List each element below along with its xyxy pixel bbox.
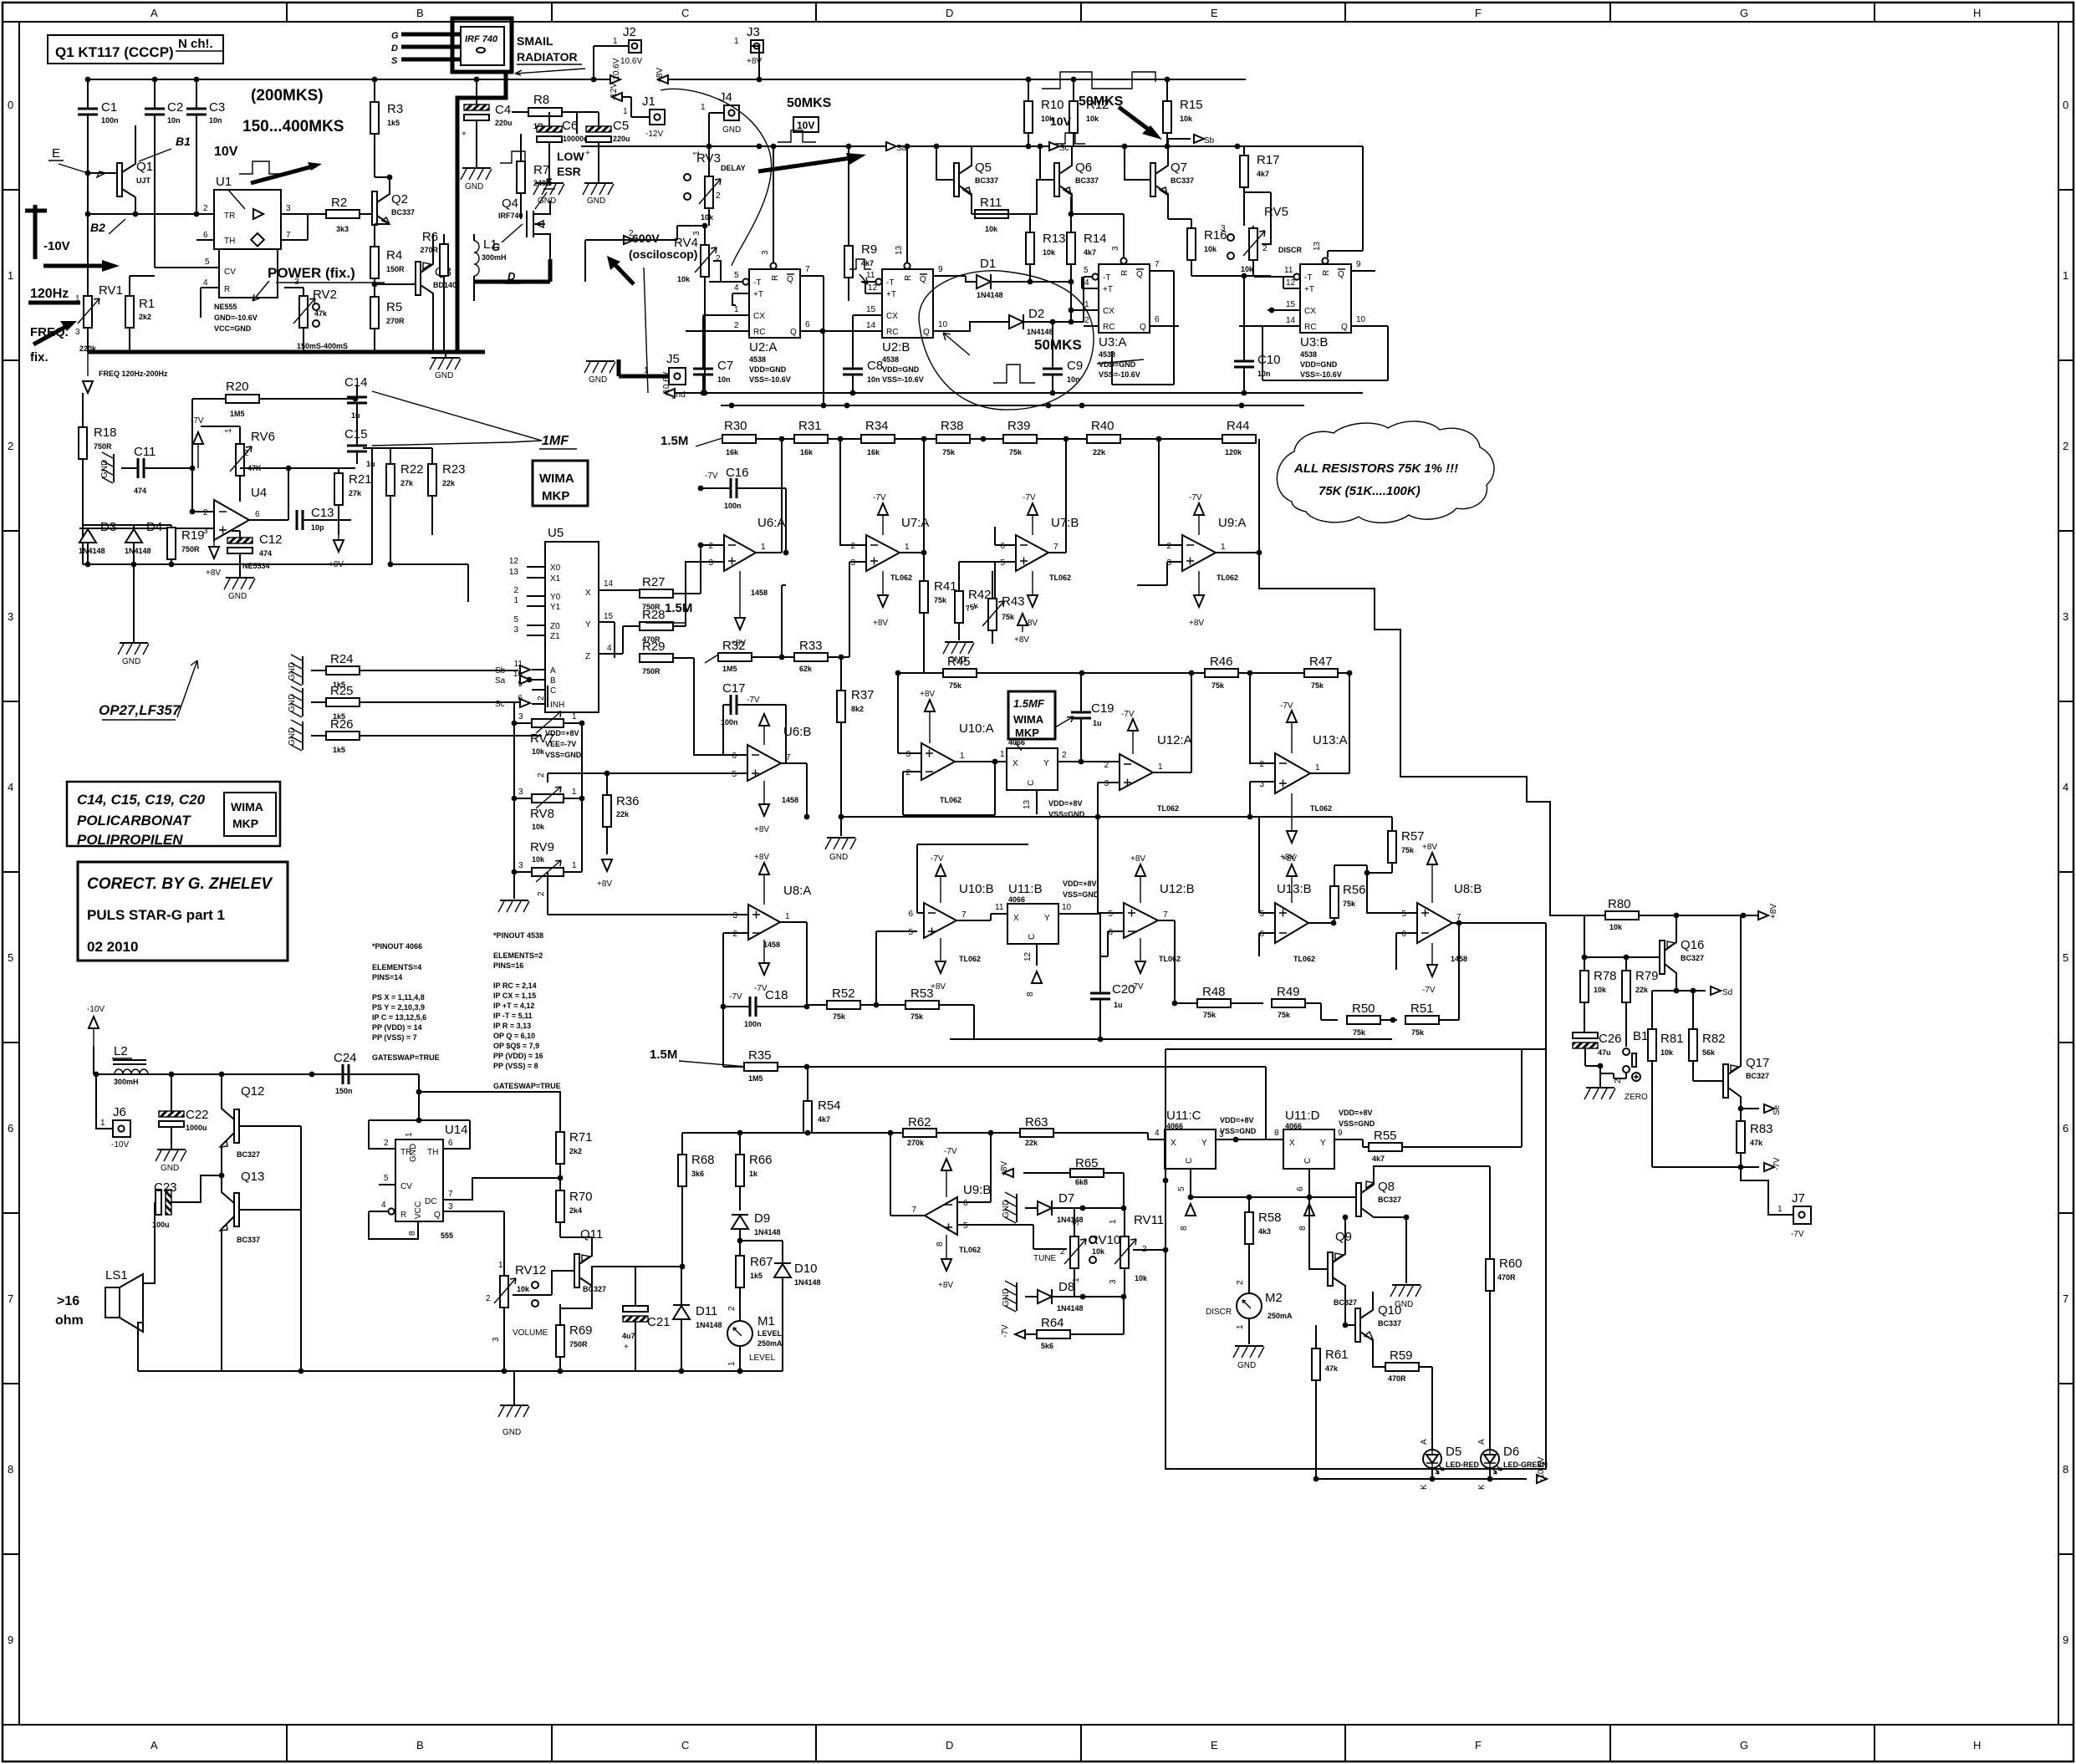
svg-text:R: R [1322, 270, 1331, 276]
svg-text:R40: R40 [1091, 419, 1115, 433]
svg-text:2: 2 [629, 229, 634, 238]
svg-text:F: F [1475, 1739, 1482, 1751]
svg-text:474: 474 [259, 549, 272, 558]
svg-text:50MKS: 50MKS [787, 96, 832, 110]
svg-text:4u7: 4u7 [622, 1332, 635, 1340]
svg-text:2: 2 [244, 449, 249, 458]
svg-text:3: 3 [518, 861, 523, 870]
freehand ellipse [919, 271, 1094, 410]
svg-text:WIMA: WIMA [231, 800, 263, 813]
svg-text:U7:B: U7:B [1051, 516, 1079, 530]
resistor R18 [79, 427, 87, 459]
svg-text:4538: 4538 [749, 355, 766, 364]
svg-text:Y: Y [585, 620, 591, 630]
svg-text:Sd: Sd [1722, 988, 1732, 997]
capacitor C6 [537, 126, 562, 142]
svg-text:1: 1 [100, 1119, 105, 1128]
svg-text:D1: D1 [980, 257, 996, 271]
svg-text:RV12: RV12 [515, 1263, 546, 1277]
svg-text:2: 2 [716, 191, 721, 201]
svg-text:MKP: MKP [542, 489, 569, 503]
svg-text:U14: U14 [445, 1123, 468, 1137]
svg-text:1: 1 [1158, 762, 1163, 772]
Sa tap [886, 142, 896, 150]
svg-text:02 2010: 02 2010 [87, 939, 138, 955]
svg-text:R41: R41 [934, 579, 957, 594]
opamp U6:B [747, 745, 781, 781]
opamp U13:B [1275, 903, 1308, 943]
svg-text:R27: R27 [642, 575, 666, 589]
svg-text:6k8: 6k8 [1075, 1178, 1088, 1186]
svg-text:ESR: ESR [557, 165, 581, 178]
svg-text:J5: J5 [666, 352, 680, 366]
svg-text:3: 3 [732, 911, 737, 920]
svg-text:Sb: Sb [1204, 136, 1215, 145]
resistor R49 [1272, 999, 1305, 1007]
diode D10 [774, 1263, 791, 1277]
svg-text:D: D [391, 43, 398, 54]
svg-text:J7: J7 [1792, 1191, 1805, 1206]
svg-text:4538: 4538 [1099, 350, 1115, 359]
box CORECT BY G ZHELEV [78, 862, 288, 961]
capacitor C8 [843, 369, 863, 375]
diode D2 [1009, 314, 1023, 329]
svg-text:VSS=-10.6V: VSS=-10.6V [1099, 370, 1140, 379]
svg-text:*PINOUT 4066: *PINOUT 4066 [372, 942, 422, 951]
svg-text:R54: R54 [818, 1099, 841, 1113]
svg-text:474: 474 [134, 487, 146, 495]
svg-text:POLIPROPILEN: POLIPROPILEN [77, 832, 183, 848]
resistor R63 [1020, 1129, 1053, 1137]
svg-text:R: R [771, 275, 780, 281]
svg-text:GND: GND [1002, 1288, 1011, 1307]
svg-text:1: 1 [734, 37, 739, 46]
svg-text:8: 8 [936, 1241, 945, 1247]
svg-text:GND=-10.6V: GND=-10.6V [214, 314, 258, 322]
svg-text:R23: R23 [442, 462, 466, 477]
svg-text:B: B [550, 676, 556, 686]
svg-text:OP $Q$ = 7,9: OP $Q$ = 7,9 [493, 1042, 539, 1050]
svg-text:2: 2 [1062, 751, 1067, 760]
transistor Q10 [1355, 1308, 1360, 1342]
svg-text:X: X [1171, 1139, 1176, 1148]
resistor R80 [1605, 911, 1639, 920]
resistor R54 [803, 1101, 812, 1133]
svg-text:150mS-400mS: 150mS-400mS [297, 342, 348, 350]
svg-text:C: C [1185, 1158, 1194, 1164]
resistor R23 [428, 464, 436, 496]
svg-text:R65: R65 [1075, 1156, 1099, 1170]
resistor R25 with gnd [291, 686, 303, 717]
svg-text:R6: R6 [422, 230, 438, 244]
svg-text:1: 1 [734, 305, 739, 314]
transistor Q3 [416, 262, 421, 295]
resistor R70 [556, 1190, 564, 1222]
svg-text:470R: 470R [1388, 1374, 1406, 1383]
svg-text:C9: C9 [1067, 359, 1083, 373]
svg-text:4066: 4066 [1285, 1122, 1302, 1130]
svg-text:U4: U4 [251, 486, 267, 500]
opamp U8:B [1417, 903, 1452, 943]
analog switch U11:D [1283, 1129, 1334, 1169]
svg-text:75k: 75k [934, 596, 947, 604]
svg-text:-7V: -7V [1121, 710, 1135, 719]
svg-text:Y: Y [1043, 759, 1049, 768]
svg-text:N ch!.: N ch!. [178, 37, 213, 51]
svg-text:270R: 270R [386, 317, 405, 325]
opamp U8:A [748, 905, 780, 940]
svg-text:D5: D5 [1446, 1445, 1461, 1459]
IC U5 4053 [545, 542, 599, 712]
svg-text:R51: R51 [1410, 1002, 1434, 1016]
svg-text:DC: DC [425, 1197, 436, 1206]
connector J4 [724, 105, 739, 120]
svg-text:C3: C3 [209, 100, 225, 115]
svg-text:-10V: -10V [87, 1005, 105, 1014]
svg-text:-7V: -7V [729, 992, 742, 1002]
svg-text:U12:B: U12:B [1160, 882, 1195, 896]
diode D8 with gnd [1005, 1281, 1017, 1312]
svg-text:56k: 56k [1702, 1048, 1716, 1057]
svg-text:R46: R46 [1210, 655, 1233, 669]
svg-text:R55: R55 [1374, 1129, 1397, 1143]
svg-text:R: R [224, 285, 230, 294]
svg-text:-7V: -7V [1189, 493, 1202, 502]
potentiometer RV8 [532, 787, 564, 808]
svg-text:+8V: +8V [1769, 904, 1778, 919]
Sc tap [1049, 142, 1059, 150]
svg-text:Z0: Z0 [550, 622, 560, 631]
resistor R13 [1026, 232, 1034, 264]
svg-text:1M5: 1M5 [748, 1074, 763, 1083]
svg-text:R8: R8 [533, 93, 549, 107]
svg-text:C12: C12 [259, 533, 283, 547]
svg-text:R39: R39 [1007, 419, 1031, 433]
resistor R46 [1205, 669, 1238, 677]
svg-text:+: + [624, 1343, 629, 1352]
svg-text:>16: >16 [57, 1294, 79, 1308]
svg-text:GND: GND [122, 657, 140, 666]
resistor R82 [1689, 1029, 1697, 1061]
resistor R68 [678, 1155, 686, 1186]
transistor Q9 [1328, 1252, 1333, 1286]
resistor R12 [1069, 101, 1078, 133]
Sd node [1652, 990, 1706, 992]
svg-text:150...400MKS: 150...400MKS [242, 118, 344, 135]
svg-text:VCC: VCC [414, 1201, 423, 1219]
svg-text:1N4148: 1N4148 [125, 547, 151, 555]
svg-text:C: C [681, 7, 689, 19]
meter M1 [727, 1321, 752, 1346]
resistor R78 [1580, 971, 1589, 1002]
resistor R17 [1240, 155, 1248, 187]
svg-text:0: 0 [2063, 99, 2068, 111]
svg-text:R64: R64 [1041, 1316, 1064, 1330]
svg-text:2: 2 [537, 772, 546, 777]
svg-text:2: 2 [734, 321, 739, 330]
diode D4 [125, 528, 142, 543]
svg-text:J3: J3 [747, 25, 760, 39]
svg-text:INH: INH [550, 701, 564, 710]
resistor R61 [1312, 1348, 1320, 1380]
svg-text:10k: 10k [532, 855, 545, 864]
svg-text:75k: 75k [1343, 900, 1356, 908]
svg-text:6: 6 [732, 752, 737, 761]
svg-text:A: A [1477, 1439, 1487, 1445]
svg-text:75k: 75k [1009, 448, 1023, 456]
svg-text:10: 10 [1356, 315, 1366, 324]
svg-text:K: K [1477, 1484, 1487, 1490]
svg-text:ZERO: ZERO [1625, 1093, 1648, 1102]
svg-text:250mA: 250mA [757, 1339, 783, 1348]
svg-text:5: 5 [384, 1174, 389, 1183]
svg-text:R62: R62 [908, 1115, 931, 1129]
svg-text:3: 3 [75, 328, 80, 337]
svg-text:+8V: +8V [873, 619, 888, 628]
svg-text:13: 13 [895, 245, 904, 255]
svg-text:8k2: 8k2 [851, 705, 864, 713]
svg-text:RV1: RV1 [99, 283, 123, 298]
svg-text:+8V: +8V [1282, 854, 1297, 864]
svg-text:RC: RC [1304, 323, 1316, 332]
svg-text:U13:A: U13:A [1313, 733, 1348, 747]
svg-text:D4: D4 [146, 520, 162, 534]
capacitor C19 [1071, 712, 1091, 718]
svg-text:3: 3 [286, 204, 291, 213]
svg-text:DISCR: DISCR [1206, 1308, 1232, 1317]
svg-text:3: 3 [2063, 610, 2068, 623]
svg-text:5: 5 [205, 257, 210, 267]
svg-text:+8V: +8V [1189, 619, 1204, 628]
svg-text:75k: 75k [910, 1012, 924, 1021]
svg-text:VDD=+8V: VDD=+8V [1063, 879, 1097, 888]
svg-text:TR: TR [224, 212, 235, 221]
svg-text:7: 7 [1155, 260, 1160, 269]
svg-text:X: X [1012, 759, 1018, 768]
capacitor C4 [464, 105, 489, 120]
resistor R26 with gnd [291, 720, 303, 751]
svg-text:A: A [150, 7, 158, 19]
svg-text:120k: 120k [1225, 448, 1242, 456]
U14 wiring [369, 1074, 470, 1149]
thick bus from IRF740 [457, 74, 506, 352]
resistor R47 [1304, 669, 1338, 677]
svg-text:250mA: 250mA [1268, 1312, 1293, 1320]
svg-text:10p: 10p [311, 523, 324, 532]
resistor R2 [326, 210, 360, 218]
+8V rail [1584, 915, 1758, 916]
svg-text:14: 14 [866, 321, 876, 330]
svg-text:1: 1 [572, 788, 577, 797]
capacitor C22 [159, 1111, 184, 1127]
resistor R62 [903, 1129, 936, 1137]
svg-text:C13: C13 [311, 506, 334, 520]
meter M2 [1237, 1293, 1262, 1318]
svg-text:*PINOUT 4538: *PINOUT 4538 [493, 931, 543, 940]
svg-text:R35: R35 [748, 1048, 772, 1063]
svg-text:Q: Q [1341, 323, 1348, 332]
svg-text:R33: R33 [799, 639, 823, 653]
svg-text:5: 5 [1000, 558, 1005, 568]
svg-text:13: 13 [1023, 799, 1032, 809]
svg-text:PULS STAR-G part 1: PULS STAR-G part 1 [87, 907, 225, 923]
capacitor C18 [750, 997, 756, 1017]
svg-text:2: 2 [8, 440, 13, 452]
resistor chain top rail [722, 439, 1252, 443]
svg-text:16k: 16k [800, 448, 814, 456]
resistor R66 [736, 1155, 744, 1186]
svg-text:1: 1 [785, 912, 790, 921]
svg-text:BC337: BC337 [1171, 176, 1194, 185]
svg-text:47u: 47u [1598, 1048, 1611, 1057]
svg-text:10k: 10k [1204, 245, 1217, 253]
svg-text:2: 2 [905, 768, 910, 777]
svg-text:5: 5 [908, 928, 913, 937]
svg-text:1N4148: 1N4148 [79, 547, 105, 555]
resistor R28 [640, 622, 673, 630]
resistor R36 [603, 795, 611, 827]
svg-text:X1: X1 [550, 574, 561, 584]
aux rail [721, 405, 1304, 406]
svg-text:GND: GND [1237, 1361, 1256, 1370]
svg-text:R29: R29 [642, 640, 666, 654]
svg-text:2: 2 [727, 1306, 737, 1311]
transistor Q12 [234, 1109, 239, 1143]
svg-text:5: 5 [963, 1221, 968, 1231]
svg-text:6: 6 [203, 231, 208, 240]
svg-text:U5: U5 [548, 526, 564, 540]
svg-text:RV9: RV9 [530, 840, 554, 854]
svg-text:9: 9 [8, 1634, 13, 1646]
svg-text:1: 1 [761, 543, 766, 552]
svg-text:7: 7 [1163, 910, 1168, 920]
resistor R65 [1070, 1169, 1104, 1177]
transistor Q16 [1660, 941, 1665, 974]
svg-text:6: 6 [1108, 928, 1113, 937]
svg-text:2k2: 2k2 [139, 313, 151, 321]
svg-text:1458: 1458 [751, 589, 768, 597]
svg-text:R44: R44 [1227, 419, 1250, 433]
svg-text:100n: 100n [101, 116, 119, 125]
GND under R42 [943, 642, 974, 654]
transistor Q5 [954, 163, 959, 196]
svg-text:-7V: -7V [705, 472, 718, 481]
svg-text:R63: R63 [1025, 1115, 1048, 1129]
svg-text:0: 0 [8, 99, 13, 111]
svg-text:R20: R20 [226, 380, 249, 394]
svg-text:GND: GND [161, 1164, 179, 1173]
svg-text:75k: 75k [1002, 613, 1015, 621]
svg-text:IP C = 13,12,5,6: IP C = 13,12,5,6 [372, 1013, 426, 1022]
svg-text:B1: B1 [176, 135, 191, 148]
box C14 C15 C19 C20 POLICARBONAT [67, 782, 280, 846]
svg-text:U12:A: U12:A [1157, 733, 1192, 747]
title box Q1 KT117 [48, 35, 223, 64]
svg-text:8: 8 [408, 1231, 417, 1236]
svg-text:75k: 75k [1401, 846, 1415, 854]
inductor L1 [474, 241, 479, 276]
svg-text:BC327: BC327 [1378, 1196, 1401, 1204]
resistor R5 [370, 297, 379, 329]
svg-text:ALL RESISTORS 75K 1% !!!: ALL RESISTORS 75K 1% !!! [1293, 461, 1458, 476]
potentiometer RV11 [1115, 1236, 1136, 1268]
svg-text:3k3: 3k3 [336, 225, 349, 233]
svg-text:1k5: 1k5 [333, 746, 345, 754]
svg-text:5: 5 [1401, 910, 1406, 919]
IC U14 555 [395, 1139, 443, 1221]
svg-text:R22: R22 [400, 462, 424, 477]
svg-text:PP (VSS) = 8: PP (VSS) = 8 [493, 1062, 538, 1070]
svg-text:B: B [416, 1739, 424, 1751]
svg-text:C8: C8 [867, 359, 883, 373]
svg-text:C24: C24 [334, 1051, 357, 1065]
svg-text:10k: 10k [532, 823, 545, 831]
svg-text:+T: +T [1304, 285, 1314, 294]
svg-text:8: 8 [1298, 1226, 1308, 1231]
svg-text:-7V: -7V [1001, 1324, 1010, 1338]
svg-text:3: 3 [518, 788, 523, 797]
svg-text:VDD=+8V: VDD=+8V [1220, 1116, 1254, 1124]
svg-text:3: 3 [492, 1337, 501, 1342]
opamp U9:A [1182, 535, 1216, 571]
svg-text:C15: C15 [344, 427, 368, 441]
svg-text:GND: GND [409, 1144, 418, 1162]
svg-text:10V: 10V [214, 145, 238, 159]
svg-text:2: 2 [732, 930, 737, 939]
resistor R33 [794, 653, 828, 661]
svg-text:6: 6 [255, 510, 260, 519]
svg-text:750R: 750R [181, 545, 200, 553]
svg-text:-T: -T [753, 278, 761, 288]
svg-text:7: 7 [8, 1292, 13, 1305]
svg-text:R59: R59 [1390, 1348, 1413, 1363]
svg-text:ohm: ohm [55, 1313, 84, 1328]
svg-text:75k: 75k [1411, 1028, 1425, 1037]
svg-text:OP Q = 6,10: OP Q = 6,10 [493, 1032, 535, 1040]
svg-text:2: 2 [1259, 760, 1264, 769]
svg-text:Sc: Sc [1059, 144, 1069, 153]
svg-text:10k: 10k [1660, 1048, 1674, 1057]
svg-text:4538: 4538 [1300, 350, 1317, 359]
capacitor C24 [343, 1064, 349, 1084]
svg-text:R32: R32 [722, 639, 746, 653]
wire to J7 [1741, 1167, 1793, 1215]
svg-text:8: 8 [1180, 1226, 1189, 1231]
svg-text:R30: R30 [724, 419, 747, 433]
svg-text:GND: GND [288, 694, 297, 712]
svg-text:1.5M: 1.5M [665, 601, 692, 615]
svg-text:2: 2 [537, 891, 546, 896]
svg-text:75k: 75k [942, 448, 956, 456]
svg-text:Q: Q [790, 328, 797, 337]
svg-text:GND: GND [948, 655, 967, 665]
svg-text:G: G [1740, 1739, 1748, 1751]
svg-text:A: A [150, 1739, 158, 1751]
svg-text:R31: R31 [798, 419, 822, 433]
svg-text:10n: 10n [867, 375, 880, 384]
svg-text:4066: 4066 [1008, 895, 1025, 904]
resistor R8 [528, 108, 562, 116]
svg-text:5: 5 [1108, 910, 1113, 919]
svg-text:6: 6 [908, 910, 913, 919]
svg-text:H: H [1973, 7, 1981, 19]
svg-text:SMAIL: SMAIL [517, 34, 553, 48]
svg-text:10k: 10k [1092, 1247, 1105, 1256]
resistor R55 [1369, 1143, 1402, 1151]
svg-text:4: 4 [1084, 278, 1089, 288]
svg-text:IRF 740: IRF 740 [465, 34, 498, 44]
svg-text:C7: C7 [717, 359, 733, 373]
